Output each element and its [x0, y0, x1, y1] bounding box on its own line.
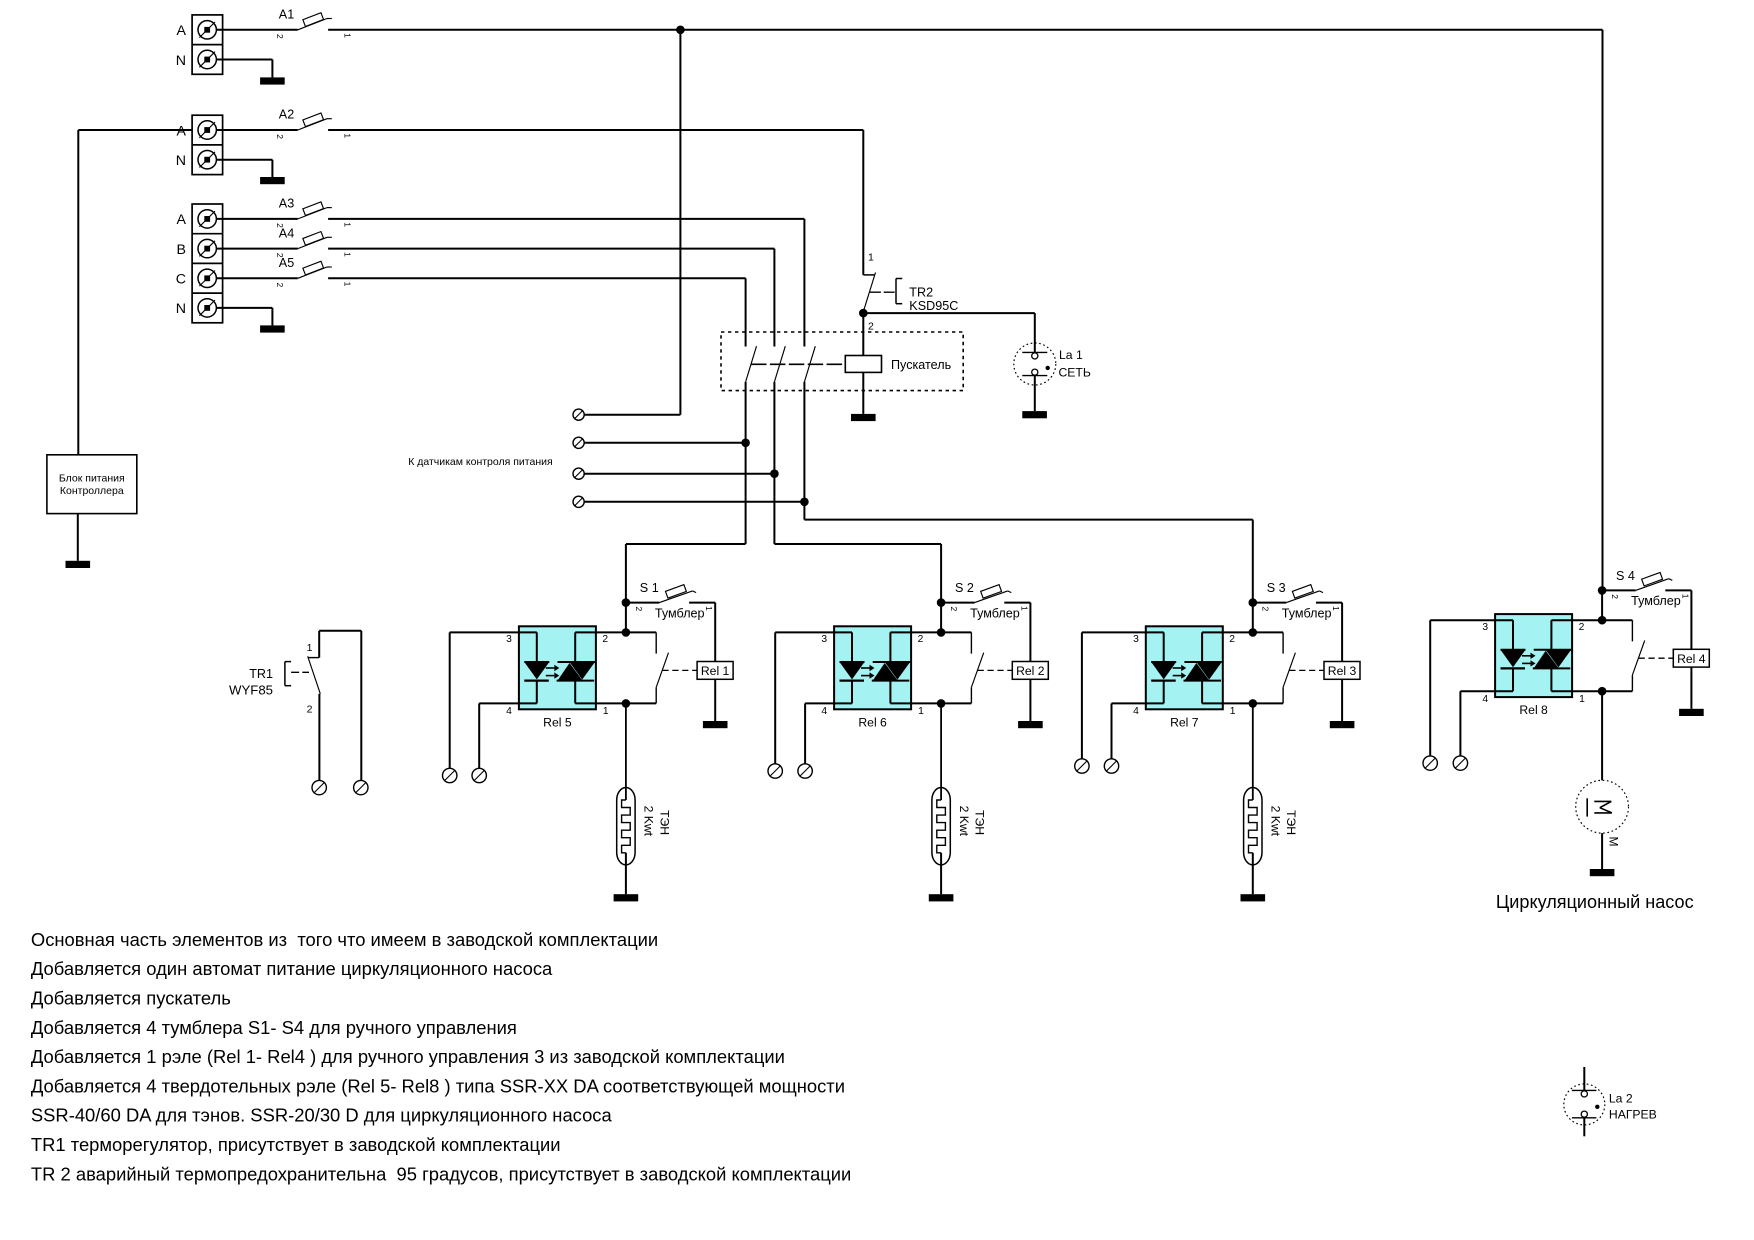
svg-text:1: 1	[343, 222, 353, 227]
svg-text:TR1 терморегулятор, присутству: TR1 терморегулятор, присутствует в завод…	[31, 1134, 561, 1155]
svg-text:3: 3	[1482, 622, 1488, 633]
svg-text:2: 2	[634, 606, 644, 611]
svg-text:1: 1	[1680, 594, 1690, 599]
svg-text:S 1: S 1	[640, 581, 659, 595]
svg-text:ТЭН: ТЭН	[657, 810, 671, 835]
svg-text:1: 1	[918, 706, 924, 717]
svg-text:Тумблер: Тумблер	[1631, 594, 1681, 608]
svg-text:1: 1	[343, 282, 353, 287]
svg-text:B: B	[177, 242, 186, 258]
svg-text:N: N	[176, 153, 186, 169]
svg-text:1: 1	[343, 33, 353, 38]
svg-text:ТЭН: ТЭН	[1284, 810, 1298, 835]
svg-text:TR 2 аварийный термопредохрани: TR 2 аварийный термопредохранительна 95 …	[31, 1163, 851, 1184]
svg-text:Блок питания: Блок питания	[59, 473, 125, 485]
svg-text:1: 1	[603, 706, 609, 717]
svg-text:1: 1	[1579, 694, 1585, 705]
svg-text:3: 3	[1133, 634, 1139, 645]
svg-text:1: 1	[1331, 606, 1341, 611]
svg-text:Rel 4: Rel 4	[1677, 652, 1706, 666]
svg-text:4: 4	[506, 706, 512, 717]
svg-text:Rel 7: Rel 7	[1170, 715, 1199, 729]
svg-text:СЕТЬ: СЕТЬ	[1059, 366, 1091, 380]
svg-text:ТЭН: ТЭН	[973, 810, 987, 835]
svg-text:TR2: TR2	[909, 286, 933, 300]
svg-text:2: 2	[868, 321, 874, 333]
svg-text:S 2: S 2	[955, 581, 974, 595]
svg-text:2: 2	[1261, 606, 1271, 611]
svg-text:2: 2	[275, 283, 285, 288]
svg-text:A: A	[177, 23, 187, 39]
svg-text:2: 2	[275, 134, 285, 139]
svg-text:La 1: La 1	[1059, 348, 1083, 362]
svg-text:Добавляется пускатель: Добавляется пускатель	[31, 988, 231, 1009]
svg-text:A2: A2	[279, 108, 294, 122]
svg-text:N: N	[176, 301, 186, 317]
svg-text:Тумблер: Тумблер	[655, 606, 705, 620]
svg-text:Добавляется один автомат питан: Добавляется один автомат питание циркуля…	[31, 958, 553, 979]
svg-text:A5: A5	[279, 256, 294, 270]
svg-text:Тумблер: Тумблер	[970, 606, 1020, 620]
svg-text:Rel 5: Rel 5	[543, 715, 572, 729]
svg-text:К датчикам контроля питания: К датчикам контроля питания	[408, 456, 552, 468]
svg-text:Добавляется 4 твердотельных рэ: Добавляется 4 твердотельных рэле (Rel 5-…	[31, 1075, 845, 1096]
svg-text:Добавляется 4 тумблера S1- S4: Добавляется 4 тумблера S1- S4 для ручног…	[31, 1017, 517, 1038]
svg-text:2: 2	[1610, 594, 1620, 599]
svg-text:Rel 1: Rel 1	[701, 664, 730, 678]
svg-text:3: 3	[821, 634, 827, 645]
svg-text:Тумблер: Тумблер	[1282, 606, 1332, 620]
svg-text:A1: A1	[279, 8, 294, 22]
svg-text:1: 1	[1019, 606, 1029, 611]
svg-text:1: 1	[868, 252, 874, 264]
svg-text:A4: A4	[279, 226, 294, 240]
svg-text:2: 2	[275, 34, 285, 39]
svg-text:Пускатель: Пускатель	[891, 358, 952, 372]
svg-text:НАГРЕВ: НАГРЕВ	[1609, 1108, 1657, 1122]
svg-text:Rel 2: Rel 2	[1016, 664, 1045, 678]
svg-text:4: 4	[1133, 706, 1139, 717]
svg-text:2: 2	[307, 704, 313, 716]
svg-text:2: 2	[918, 634, 924, 645]
svg-text:A: A	[177, 212, 187, 228]
svg-text:2 Kwt: 2 Kwt	[1269, 806, 1283, 837]
svg-text:Основная часть элементов из т: Основная часть элементов из того что име…	[31, 929, 658, 950]
svg-text:A: A	[177, 123, 187, 139]
svg-text:Циркуляционный насос: Циркуляционный насос	[1496, 892, 1694, 912]
svg-text:S 4: S 4	[1616, 569, 1635, 583]
svg-text:Rel 3: Rel 3	[1328, 664, 1357, 678]
svg-text:M: M	[1607, 837, 1621, 847]
svg-text:1: 1	[343, 252, 353, 257]
svg-text:N: N	[176, 53, 186, 69]
svg-text:4: 4	[1482, 694, 1488, 705]
svg-text:1: 1	[307, 642, 313, 654]
svg-text:KSD95C: KSD95C	[909, 299, 958, 313]
svg-text:2 Kwt: 2 Kwt	[642, 806, 656, 837]
svg-text:Добавляется 1 рэле (Rel 1- Rel: Добавляется 1 рэле (Rel 1- Rel4 ) для ру…	[31, 1046, 785, 1067]
svg-text:TR1: TR1	[249, 667, 273, 681]
svg-text:A3: A3	[279, 197, 294, 211]
svg-text:Rel 8: Rel 8	[1519, 703, 1548, 717]
svg-text:Контроллера: Контроллера	[60, 485, 124, 497]
svg-text:4: 4	[821, 706, 827, 717]
svg-text:2 Kwt: 2 Kwt	[957, 806, 971, 837]
svg-text:1: 1	[343, 133, 353, 138]
svg-text:2: 2	[602, 634, 608, 645]
svg-text:1: 1	[704, 606, 714, 611]
svg-text:S 3: S 3	[1267, 581, 1286, 595]
svg-text:2: 2	[1229, 634, 1235, 645]
svg-text:1: 1	[1230, 706, 1236, 717]
svg-text:SSR-40/60 DA для тэнов. SSR-20: SSR-40/60 DA для тэнов. SSR-20/30 D для …	[31, 1105, 613, 1126]
svg-text:La 2: La 2	[1609, 1091, 1633, 1105]
svg-text:WYF85: WYF85	[229, 683, 273, 698]
svg-text:2: 2	[1579, 622, 1585, 633]
svg-text:2: 2	[949, 606, 959, 611]
svg-text:C: C	[176, 272, 186, 288]
svg-text:Rel 6: Rel 6	[858, 715, 887, 729]
svg-text:3: 3	[506, 634, 512, 645]
